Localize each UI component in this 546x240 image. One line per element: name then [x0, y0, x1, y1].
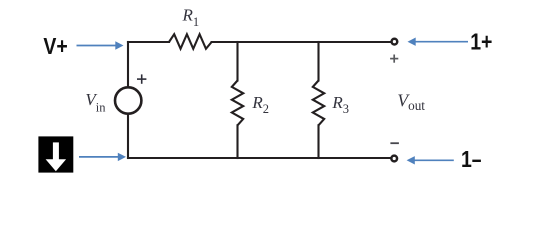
wire top horizontal R1 to terminal — [212, 41, 391, 43]
polarity plus at output (above V_out) — [390, 55, 398, 63]
wire top-left horizontal — [128, 41, 169, 43]
wire left vertical upper — [127, 42, 129, 86]
svg-text:1+: 1+ — [470, 29, 492, 55]
wire R3 branch lower — [317, 125, 319, 158]
wire R2 branch lower — [236, 125, 238, 158]
arrow ground to node — [79, 153, 126, 161]
terminal 1+ (open circle) — [392, 39, 398, 45]
svg-text:1: 1 — [461, 147, 472, 173]
wire R2 branch upper — [236, 42, 238, 81]
arrow 1+ to terminal — [408, 38, 469, 46]
wire R3 branch upper — [317, 42, 319, 81]
wire left vertical lower — [127, 115, 129, 158]
resistor R1 — [169, 34, 212, 49]
svg-text:V+: V+ — [43, 33, 67, 59]
resistor R3 — [313, 81, 324, 126]
polarity plus of source V_in — [137, 74, 146, 83]
wire bottom horizontal — [128, 157, 390, 159]
arrow 1- to terminal — [407, 156, 454, 164]
resistor R2 — [232, 81, 243, 126]
ground icon (black square with down arrow) — [38, 136, 73, 172]
arrow V+ to node — [77, 41, 124, 49]
polarity minus at output (below V_out) — [390, 142, 399, 144]
terminal 1- (open circle) — [391, 156, 397, 162]
source V_in — [115, 87, 141, 113]
